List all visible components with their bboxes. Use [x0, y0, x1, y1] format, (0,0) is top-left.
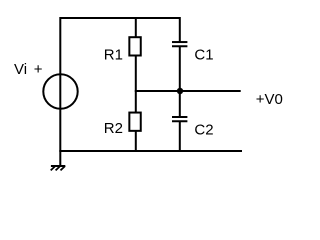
source Vi — [43, 74, 77, 108]
svg-text:+V0: +V0 — [256, 91, 283, 108]
wire: bottom horizontal — [59, 150, 242, 152]
node output junction — [177, 88, 183, 94]
capacitor C1 — [172, 42, 187, 46]
wire: C branch middle segment — [179, 47, 181, 118]
svg-text:R2: R2 — [104, 120, 123, 137]
resistor R2 — [129, 113, 140, 131]
svg-text:R1: R1 — [104, 46, 123, 63]
svg-text:Vi: Vi — [14, 61, 27, 78]
ground — [51, 166, 66, 170]
wire: middle horizontal to output — [135, 90, 241, 92]
svg-text:+: + — [34, 61, 43, 78]
wire: left vertical + top wire + C-branch upper stub — [60, 18, 180, 166]
svg-text:C2: C2 — [194, 122, 213, 139]
resistor R1 — [129, 37, 140, 55]
wire: R branch vertical — [135, 17, 137, 152]
svg-text:C1: C1 — [194, 47, 213, 64]
capacitor C2 — [172, 117, 187, 121]
wire: C branch lower segment — [179, 122, 181, 153]
